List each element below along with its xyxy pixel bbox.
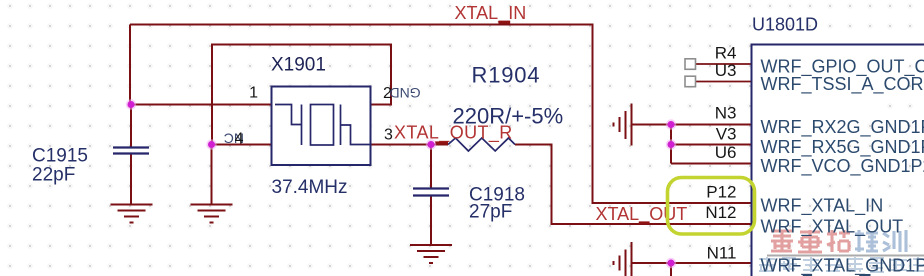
wire vertical node C to node D [670,125,672,145]
resistor R1904 zigzag [448,138,515,151]
svg-text:R1904: R1904 [472,63,541,88]
watermark big row 5 char (blue) [883,230,906,252]
svg-text:V3: V3 [716,125,737,144]
ground under C1915 [111,205,153,223]
svg-text:WRF_XTAL_GND1P8: WRF_XTAL_GND1P8 [761,256,924,276]
wire node B to crystal pin 4 [212,144,271,146]
watermark big row 2 char (pink) [798,230,822,252]
ground under C1918 [410,245,452,263]
capacitor C1915 plates [113,148,149,154]
wire crystal pin 3 to resistor R1904 [371,144,449,146]
ground under node B [191,205,233,223]
svg-text:X1901: X1901 [271,55,326,76]
wire vertical node D down to U6 row [670,145,672,164]
capacitor C1918 plates [413,189,449,196]
wire C1915 lower stem to ground [130,154,132,205]
watermark grey underline [767,255,924,257]
IC U1801D body edge [752,45,924,276]
junction node at C1918 [426,139,436,149]
svg-text:WRF_XTAL_OUT: WRF_XTAL_OUT [761,217,904,238]
svg-text:N12: N12 [705,203,736,222]
svg-text:3: 3 [384,127,393,144]
svg-text:GND: GND [389,85,420,101]
net label XTAL_OUT_R wire tick [435,141,448,144]
svg-text:22pF: 22pF [32,165,75,186]
sideways ground at N11 row [614,242,632,276]
junction node C [666,119,676,129]
wire node E vertical down off sheet [670,263,672,276]
svg-text:WRF_RX5G_GND1P2: WRF_RX5G_GND1P2 [761,137,924,158]
wire left vertical from top wire to node A [129,25,131,105]
junction node E [666,258,676,268]
wire net XTAL_OUT from resistor to pin N12 [515,145,751,225]
watermark big row 1 char (pink) [771,231,793,252]
net label XTAL_IN wire tick [499,21,511,24]
svg-text:R4: R4 [715,44,737,63]
crystal X1901 inner electrodes and quartz plate [275,105,370,146]
svg-text:37.4MHz: 37.4MHz [272,177,348,198]
svg-text:XTAL_IN: XTAL_IN [455,3,527,24]
svg-text:4: 4 [235,131,244,148]
net label XTAL_OUT wire tick [639,221,650,224]
wire node A to crystal pin 1 [130,104,271,106]
no-connect square marker pin U3 [685,76,696,87]
svg-text:WRF_RX2G_GND1P2: WRF_RX2G_GND1P2 [761,117,924,138]
wire C1918 upper stem [430,145,432,189]
svg-text:WRF_TSSI_A_CORE: WRF_TSSI_A_CORE [761,74,924,95]
svg-text:P12: P12 [706,183,736,202]
svg-text:27pF: 27pF [469,202,512,223]
svg-text:U3: U3 [715,61,737,80]
watermark big row 4 char (blue) [855,230,878,252]
pin U3 line [696,81,752,83]
junction node D [666,139,676,149]
svg-text:WRF_XTAL_IN: WRF_XTAL_IN [761,196,884,217]
junction node B [206,139,216,149]
wire GND loop from crystal pin 2 around top to node B [212,45,391,145]
wire U6 row to pin U6 [671,163,751,165]
svg-text:U6: U6 [715,143,737,162]
watermark small row glyphs [759,257,924,272]
wire net N11 row from sideways ground to pin N11 [631,262,751,264]
crystal X1901 body [272,87,371,166]
wire node D to pin V3 [671,144,751,146]
svg-text:220R/+-5%: 220R/+-5% [453,104,564,129]
wire C1918 lower stem to ground [430,196,432,246]
sideways ground at N3 row [614,104,632,146]
no-connect square marker pin R4 [685,59,696,70]
pin R4 line [696,63,752,65]
svg-text:N3: N3 [715,104,737,123]
junction node A [126,99,136,109]
highlight box around pins P12 N12 [668,178,755,235]
wire node B stem to ground [211,145,213,205]
wire C1915 upper stem [130,105,132,148]
svg-text:U1801D: U1801D [752,15,818,35]
svg-text:C1915: C1915 [32,146,88,167]
watermark big row 3 char (pink) [827,230,850,252]
svg-text:1: 1 [249,85,258,102]
wire net N3 row from sideways ground to pin N3 [631,124,751,126]
cut-off glyph tops at bottom edge [803,274,812,276]
wire net XTAL_IN top horizontal and down to pin P12 [130,25,751,204]
svg-text:WRF_VCO_GND1P2: WRF_VCO_GND1P2 [761,156,924,177]
svg-text:N11: N11 [707,244,737,263]
